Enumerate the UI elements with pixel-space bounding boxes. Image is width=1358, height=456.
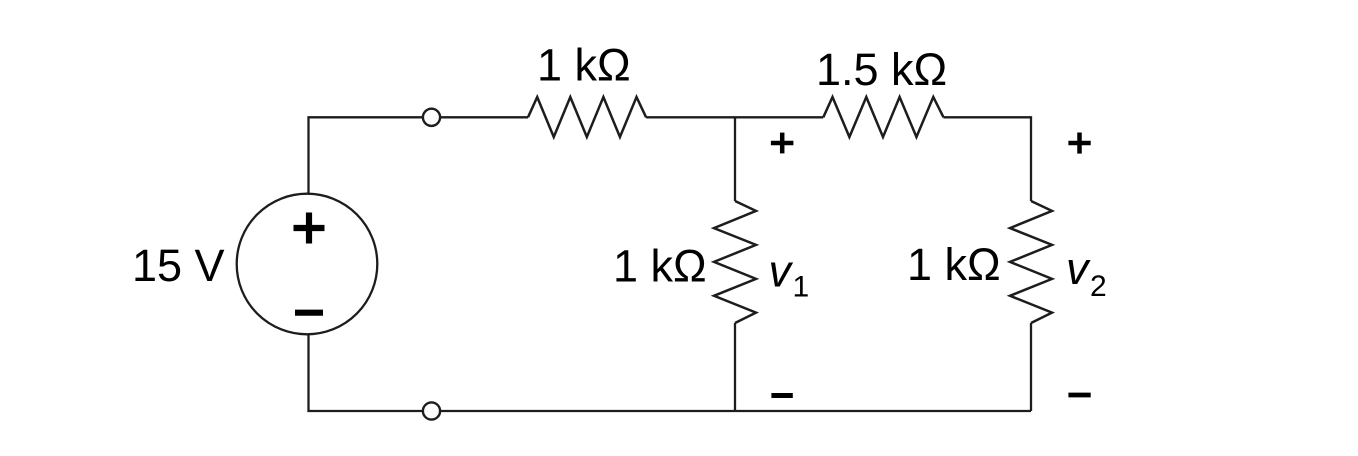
svg-text:2: 2 <box>1090 270 1107 303</box>
voltage source minus sign <box>295 310 323 316</box>
wire middle node vertical bottom <box>734 323 736 411</box>
wire top middle segment <box>646 116 823 118</box>
voltage source VS circle <box>237 194 378 335</box>
polarity plus v2 <box>1068 133 1090 154</box>
svg-text:1 kΩ: 1 kΩ <box>537 40 631 91</box>
polarity minus v2 <box>1068 393 1090 398</box>
polarity minus v1 <box>771 393 792 398</box>
terminal node top open circle <box>423 109 440 126</box>
svg-text:1 kΩ: 1 kΩ <box>613 241 707 292</box>
resistor R4 1 kOhm vertical v2 <box>1010 201 1052 323</box>
svg-text:1: 1 <box>793 271 810 304</box>
svg-text:1 kΩ: 1 kΩ <box>907 239 1001 290</box>
svg-text:15 V: 15 V <box>132 240 225 291</box>
terminal node bottom open circle <box>423 402 440 419</box>
polarity plus v1 <box>771 133 794 154</box>
voltage source plus sign <box>294 213 325 244</box>
wire top-right corner segment <box>944 117 1032 201</box>
resistor R1 1 kOhm horizontal <box>528 97 646 137</box>
resistor R3 1 kOhm vertical v1 <box>714 201 756 323</box>
svg-text:v: v <box>1066 243 1091 294</box>
svg-text:v: v <box>769 246 794 297</box>
resistor R2 1.5 kOhm horizontal <box>823 97 943 137</box>
wire right-bottom segment <box>1030 323 1032 411</box>
wire middle node vertical top <box>734 117 736 201</box>
wire bottom segment <box>309 334 1032 411</box>
svg-text:1.5 kΩ: 1.5 kΩ <box>816 44 947 95</box>
wire top-left segment <box>309 117 529 194</box>
